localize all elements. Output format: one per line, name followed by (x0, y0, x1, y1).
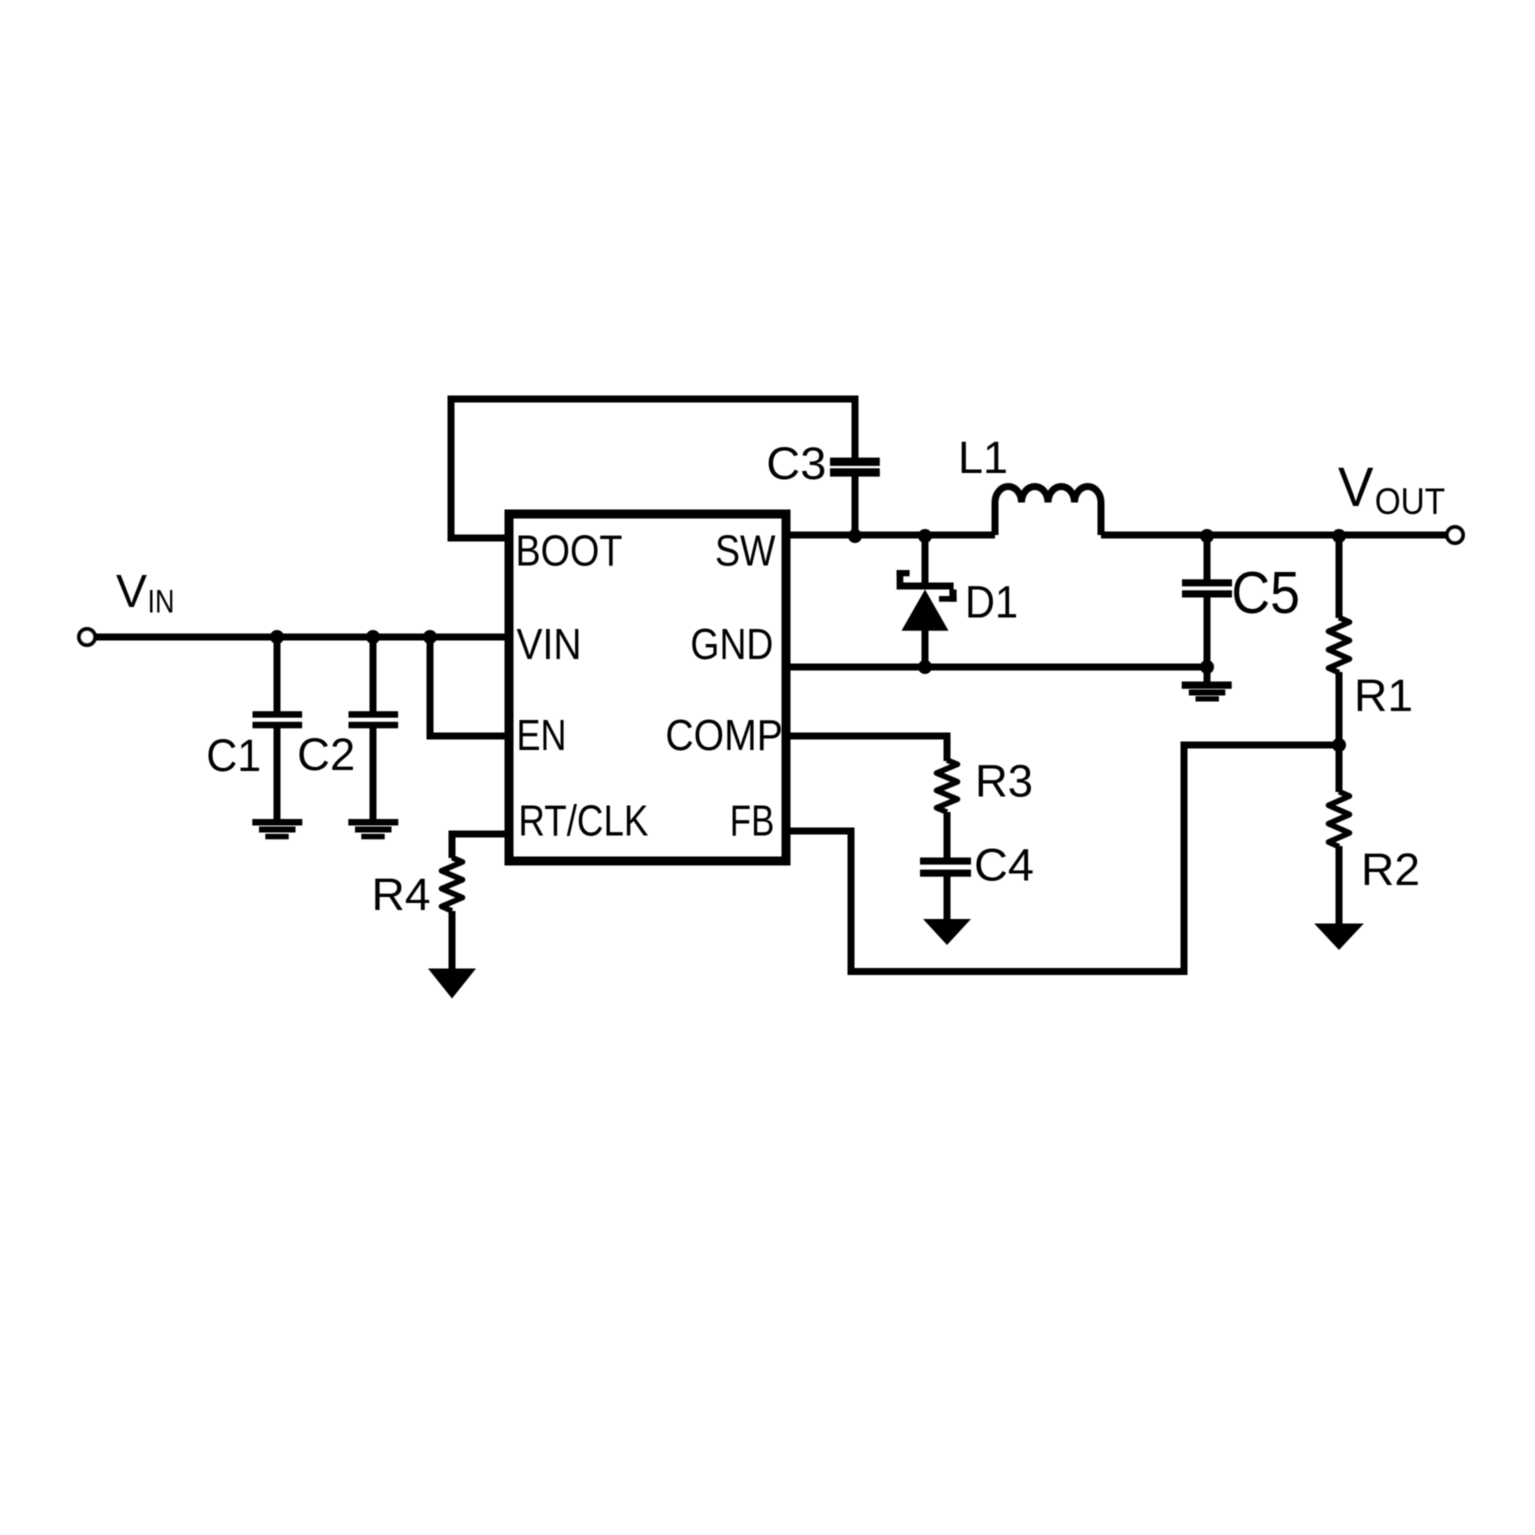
svg-text:L1: L1 (958, 432, 1008, 483)
terminal VIN (79, 629, 95, 645)
svg-text:BOOT: BOOT (516, 526, 623, 575)
wire R1 lower lead (1336, 672, 1343, 745)
capacitor C3 plates (830, 458, 880, 477)
wire C1 upper lead (274, 637, 281, 712)
wire R4 lower lead (449, 911, 456, 970)
wire FB net (786, 745, 1339, 972)
svg-text:IN: IN (148, 584, 175, 620)
wire R2 lower lead (1336, 846, 1343, 925)
svg-text:SW: SW (715, 526, 776, 575)
op-amp/IC U1 regulator box (509, 514, 786, 861)
wire R1 upper lead (1336, 535, 1343, 618)
capacitor C4 plates (920, 858, 971, 877)
svg-text:C4: C4 (974, 840, 1034, 891)
svg-text:V: V (1338, 455, 1374, 518)
node VIN-C2 junction (366, 630, 380, 644)
node VOUT-C5 junction (1200, 529, 1214, 543)
svg-text:GND: GND (690, 620, 773, 669)
svg-text:EN: EN (517, 711, 567, 760)
svg-text:D1: D1 (965, 576, 1018, 627)
wire R2 upper lead (1336, 745, 1343, 792)
capacitor C1 plates (253, 711, 303, 728)
diode D1 (Schottky) (897, 570, 957, 631)
svg-text:COMP: COMP (665, 711, 783, 760)
wire GND rail (786, 664, 1207, 671)
svg-text:C2: C2 (297, 729, 355, 780)
wire C2 upper lead (370, 637, 377, 712)
inductor L1 (995, 487, 1101, 536)
wire VIN rail (95, 634, 509, 641)
node GND-C5 junction (1200, 660, 1214, 674)
svg-text:R3: R3 (975, 756, 1033, 807)
wire BOOT loop (451, 399, 855, 538)
ground C1 (252, 819, 302, 839)
svg-text:R4: R4 (372, 869, 431, 920)
svg-text:RT/CLK: RT/CLK (518, 796, 648, 845)
wire C2 lower lead (370, 727, 377, 820)
wire C5 upper lead (1204, 535, 1211, 580)
ground R4 (arrow) (428, 969, 476, 999)
wire D1 cathode lead (922, 535, 929, 583)
svg-text:C3: C3 (766, 438, 826, 489)
resistor R1 (1329, 618, 1350, 673)
svg-text:C1: C1 (206, 730, 261, 781)
ground C2 (348, 819, 398, 839)
ground C5 (1182, 682, 1232, 702)
svg-text:V: V (116, 565, 147, 617)
wire C5 lower lead (1204, 597, 1211, 682)
wire SW rail (786, 532, 995, 539)
wire R3 to C4 (944, 812, 951, 858)
capacitor C5 plates (1182, 579, 1232, 597)
node FB-R1-R2 junction (1332, 738, 1346, 752)
wire RT/CLK branch (452, 834, 509, 858)
wire D1 anode lead (922, 630, 929, 667)
node VOUT-R1 junction (1332, 529, 1346, 543)
node SW-C3 junction (848, 529, 862, 543)
terminal VOUT (1447, 527, 1463, 543)
node GND-D1 junction (918, 660, 932, 674)
resistor R3 (937, 760, 958, 812)
wire COMP branch (786, 736, 947, 761)
node VIN-C1 junction (270, 630, 284, 644)
capacitor C2 plates (349, 711, 399, 728)
svg-text:VIN: VIN (517, 620, 582, 669)
wire L1 to VOUT rail (1101, 532, 1447, 539)
svg-text:R1: R1 (1354, 670, 1413, 721)
wire EN branch (430, 637, 509, 736)
wire C4 lower lead (944, 876, 951, 920)
wire C1 lower lead (274, 727, 281, 820)
resistor R2 (1329, 792, 1350, 847)
svg-text:R2: R2 (1361, 844, 1420, 895)
resistor R4 (442, 858, 463, 911)
svg-text:OUT: OUT (1375, 481, 1446, 522)
svg-text:FB: FB (730, 796, 775, 845)
wire C3 lower lead (852, 476, 859, 535)
node VIN-EN junction (423, 630, 437, 644)
svg-text:C5: C5 (1231, 560, 1300, 626)
ground C4 (arrow) (923, 919, 971, 945)
ground R2 (arrow) (1314, 924, 1364, 951)
node SW-D1 junction (918, 529, 932, 543)
